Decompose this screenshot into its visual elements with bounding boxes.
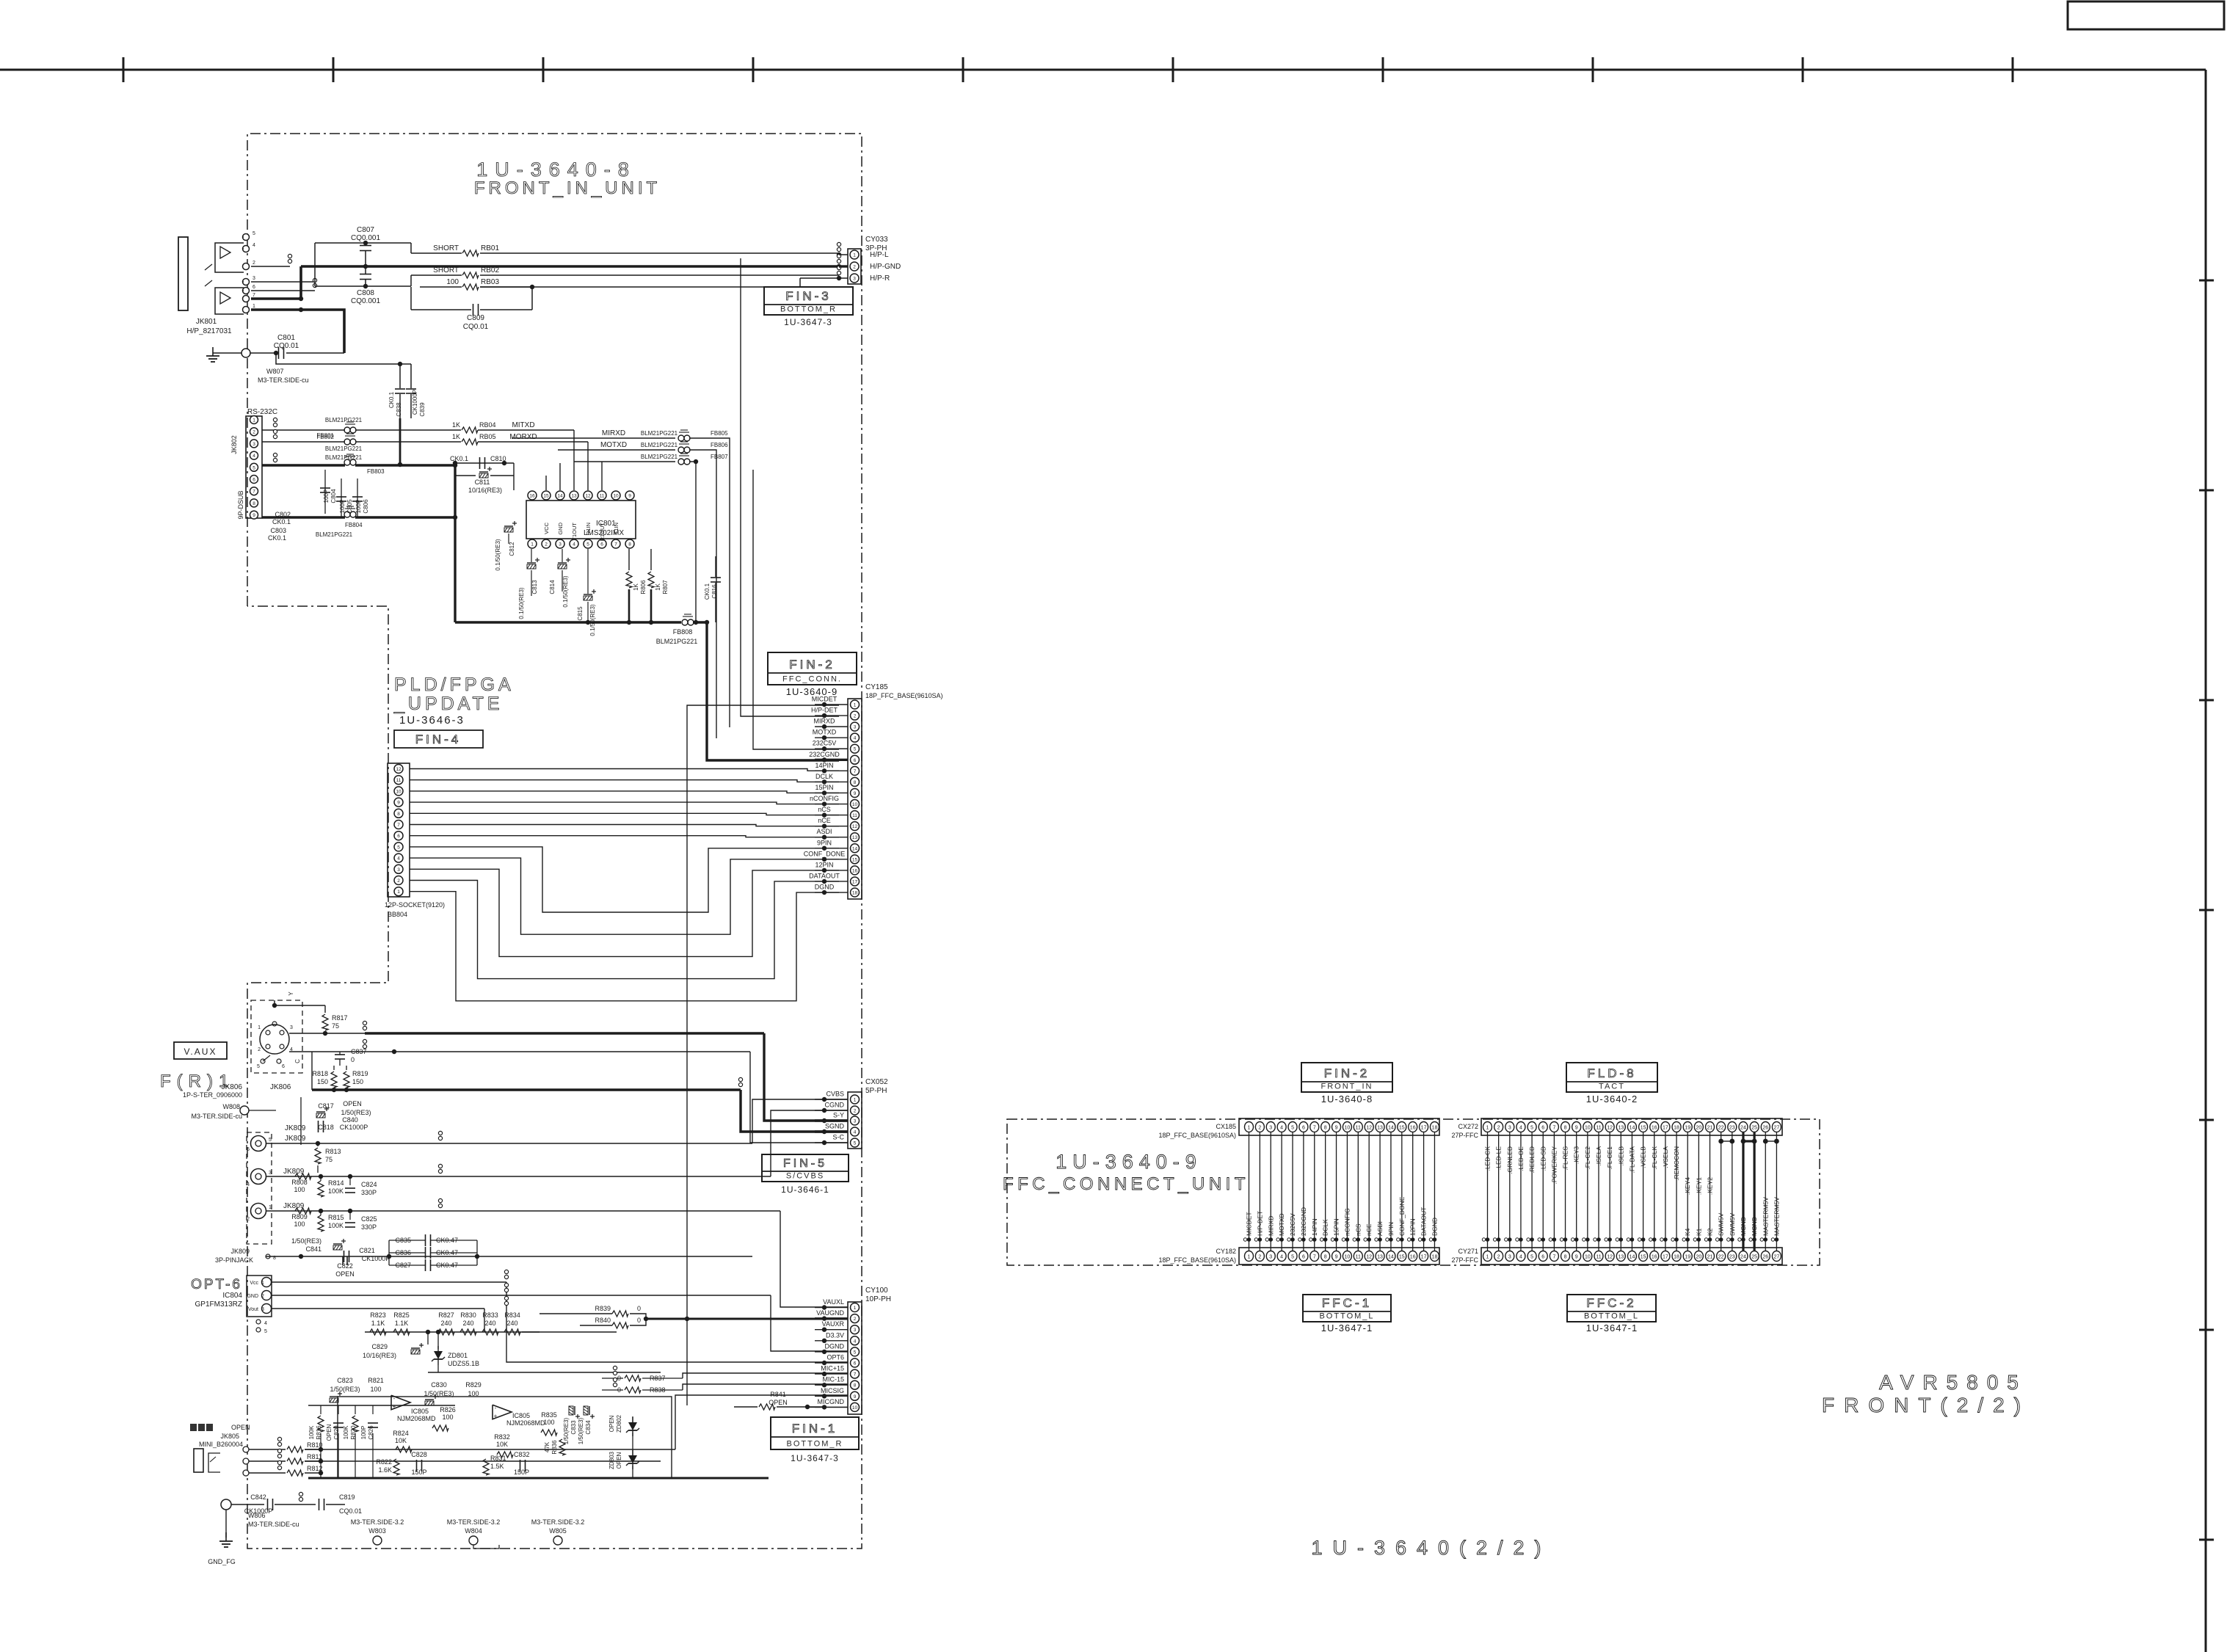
- svg-text:10: 10: [1345, 1255, 1351, 1260]
- svg-text:24: 24: [1740, 1126, 1746, 1131]
- svg-text:C806: C806: [363, 499, 369, 514]
- svg-text:W807: W807: [266, 368, 284, 375]
- svg-text:5: 5: [854, 1350, 857, 1355]
- svg-text:ASDI: ASDI: [1376, 1221, 1384, 1236]
- svg-text:.ISELA: .ISELA: [1595, 1146, 1602, 1166]
- svg-text:JK801: JK801: [196, 318, 217, 326]
- svg-text:12PIN: 12PIN: [1409, 1218, 1417, 1236]
- svg-text:CX052: CX052: [865, 1078, 888, 1086]
- svg-text:R814: R814: [328, 1179, 344, 1187]
- svg-text:Vout: Vout: [248, 1307, 258, 1312]
- svg-text:24: 24: [1740, 1255, 1746, 1260]
- svg-text:13: 13: [1618, 1255, 1624, 1260]
- svg-text:47K: 47K: [544, 1441, 551, 1452]
- svg-text:Vcc: Vcc: [250, 1281, 258, 1286]
- svg-text:3: 3: [853, 277, 856, 282]
- svg-text:27P-FFC: 27P-FFC: [1451, 1256, 1478, 1264]
- svg-text:BLM21PG221: BLM21PG221: [325, 454, 363, 461]
- svg-text:8: 8: [253, 501, 255, 506]
- svg-text:9: 9: [1575, 1255, 1578, 1260]
- svg-text:9: 9: [1335, 1126, 1338, 1131]
- svg-text:27: 27: [1774, 1126, 1780, 1131]
- svg-text:SWM5V: SWM5V: [1729, 1213, 1736, 1237]
- svg-text:1U-3640-2: 1U-3640-2: [1586, 1094, 1638, 1105]
- svg-text:3: 3: [854, 1328, 857, 1333]
- svg-text:2: 2: [1258, 1126, 1261, 1131]
- svg-text:15: 15: [1641, 1126, 1646, 1131]
- svg-text:11: 11: [1596, 1126, 1601, 1131]
- svg-text:DATAOUT: DATAOUT: [1420, 1207, 1428, 1236]
- svg-text:0.1/50(RE3): 0.1/50(RE3): [495, 539, 501, 570]
- svg-text:10K: 10K: [496, 1441, 508, 1448]
- svg-text:7: 7: [1552, 1126, 1555, 1131]
- svg-text:4: 4: [264, 1321, 267, 1326]
- svg-text:OPEN: OPEN: [231, 1424, 250, 1431]
- svg-text:3: 3: [559, 542, 562, 547]
- svg-text:100K: 100K: [328, 1222, 344, 1229]
- svg-text:13: 13: [852, 835, 858, 840]
- svg-text:CK0.1: CK0.1: [450, 455, 468, 462]
- svg-text:CX272: CX272: [1458, 1123, 1478, 1130]
- svg-text:CQ0.001: CQ0.001: [351, 297, 380, 305]
- svg-text:4: 4: [253, 243, 255, 248]
- svg-text:CK0.1: CK0.1: [388, 391, 395, 408]
- svg-text:25: 25: [1751, 1255, 1757, 1260]
- svg-text:100: 100: [294, 1220, 305, 1228]
- svg-text:1U-3646-3: 1U-3646-3: [399, 714, 465, 727]
- svg-text:C825: C825: [361, 1215, 377, 1223]
- svg-text:BLM21PG221: BLM21PG221: [325, 445, 363, 452]
- svg-text:SWM5V: SWM5V: [1718, 1213, 1725, 1237]
- svg-text:100: 100: [294, 1186, 305, 1193]
- svg-text:H/P-DET: H/P-DET: [811, 707, 838, 714]
- svg-text:25: 25: [1751, 1126, 1757, 1131]
- svg-text:GND: GND: [557, 522, 564, 534]
- svg-text:MIC-15: MIC-15: [822, 1376, 844, 1383]
- svg-text:DGND: DGND: [815, 884, 835, 891]
- svg-text:VAUXL: VAUXL: [823, 1298, 844, 1306]
- svg-text:MASTERM5V: MASTERM5V: [1762, 1197, 1769, 1236]
- svg-text:16: 16: [1410, 1255, 1416, 1260]
- svg-text:4: 4: [854, 736, 857, 741]
- svg-text:CQ0.001: CQ0.001: [351, 234, 380, 242]
- svg-text:18: 18: [852, 891, 858, 896]
- svg-text:3: 3: [290, 1025, 293, 1030]
- svg-text:JK809: JK809: [230, 1248, 250, 1255]
- svg-text:3: 3: [261, 1307, 264, 1312]
- svg-text:3: 3: [1508, 1255, 1511, 1260]
- svg-text:100: 100: [442, 1413, 453, 1421]
- svg-text:7: 7: [253, 293, 255, 298]
- svg-text:8: 8: [854, 780, 857, 785]
- svg-text:6: 6: [397, 834, 400, 839]
- svg-text:5: 5: [269, 1138, 272, 1143]
- svg-text:R834: R834: [504, 1311, 520, 1319]
- svg-text:RB04: RB04: [479, 421, 496, 429]
- svg-text:MIRXD: MIRXD: [602, 429, 625, 437]
- svg-text:100K: 100K: [343, 1425, 349, 1439]
- svg-text:18P_FFC_BASE(9610SA): 18P_FFC_BASE(9610SA): [865, 692, 943, 699]
- svg-text:MASTERM5V: MASTERM5V: [1773, 1197, 1780, 1236]
- svg-text:100: 100: [370, 1386, 381, 1393]
- svg-text:1: 1: [1486, 1255, 1489, 1260]
- svg-text:2: 2: [854, 1109, 857, 1114]
- svg-text:5: 5: [854, 1141, 857, 1146]
- svg-text:6: 6: [282, 1064, 285, 1069]
- svg-text:1: 1: [253, 418, 255, 423]
- svg-text:1U-3646-1: 1U-3646-1: [781, 1185, 829, 1195]
- svg-text:1: 1: [1486, 1126, 1489, 1131]
- svg-text:17: 17: [852, 879, 858, 884]
- svg-text:15PIN: 15PIN: [815, 784, 833, 791]
- svg-text:15: 15: [543, 494, 549, 499]
- svg-text:MGND: MGND: [1740, 1217, 1747, 1236]
- svg-text:4: 4: [1280, 1126, 1283, 1131]
- svg-text:13: 13: [1377, 1255, 1383, 1260]
- svg-text:6: 6: [600, 542, 603, 547]
- svg-text:C801: C801: [277, 334, 295, 342]
- svg-text:DATAOUT: DATAOUT: [809, 872, 840, 879]
- svg-text:1/50(RE3): 1/50(RE3): [330, 1386, 360, 1393]
- svg-text:18: 18: [1432, 1126, 1438, 1131]
- svg-text:FIN-2: FIN-2: [789, 658, 835, 672]
- svg-text:R823: R823: [370, 1311, 386, 1319]
- svg-text:DGND: DGND: [825, 1342, 845, 1350]
- svg-text:22: 22: [1718, 1255, 1724, 1260]
- svg-text:C804: C804: [330, 489, 337, 503]
- svg-text:CQ0.01: CQ0.01: [463, 323, 489, 331]
- svg-text:3: 3: [253, 276, 255, 281]
- svg-text:C815: C815: [577, 606, 584, 621]
- svg-text:nCE: nCE: [1365, 1223, 1373, 1236]
- svg-text:2: 2: [854, 1317, 857, 1322]
- svg-text:nCS: nCS: [1354, 1223, 1362, 1236]
- svg-text:240: 240: [484, 1320, 495, 1327]
- svg-text:CK0.1: CK0.1: [704, 583, 711, 600]
- svg-text:C808: C808: [357, 289, 374, 297]
- svg-text:0: 0: [637, 1317, 641, 1324]
- svg-text:16: 16: [1652, 1126, 1657, 1131]
- svg-text:C833: C833: [570, 1420, 577, 1435]
- svg-text:12P-SOCKET(9120): 12P-SOCKET(9120): [385, 901, 445, 909]
- svg-text:Y: Y: [288, 991, 294, 996]
- svg-text:.FL-CLK: .FL-CLK: [1651, 1146, 1658, 1170]
- svg-text:MOTXD: MOTXD: [813, 729, 837, 736]
- svg-text:BLM21PG221: BLM21PG221: [641, 430, 678, 437]
- svg-text:ZD803: ZD803: [608, 1451, 615, 1469]
- svg-text:11: 11: [1596, 1255, 1601, 1260]
- svg-text:R824: R824: [393, 1430, 409, 1437]
- svg-text:MICSIG: MICSIG: [821, 1387, 844, 1394]
- svg-text:1K: 1K: [452, 421, 460, 429]
- svg-text:330P: 330P: [361, 1189, 377, 1196]
- svg-text:1K: 1K: [655, 583, 661, 590]
- svg-text:150P: 150P: [411, 1469, 426, 1476]
- svg-text:232C5V: 232C5V: [1289, 1213, 1296, 1236]
- svg-text:3: 3: [854, 725, 857, 730]
- svg-text:21: 21: [1707, 1126, 1713, 1131]
- svg-text:1U-3640-8: 1U-3640-8: [1321, 1094, 1373, 1105]
- svg-text:UDZS5.1B: UDZS5.1B: [448, 1360, 479, 1367]
- svg-text:R813: R813: [325, 1148, 341, 1155]
- svg-text:7: 7: [397, 823, 400, 828]
- svg-text:0.1/50(RE3): 0.1/50(RE3): [589, 604, 596, 636]
- svg-text:8: 8: [854, 1383, 857, 1389]
- svg-text:BOTTOM_L: BOTTOM_L: [1584, 1312, 1639, 1321]
- svg-text:2: 2: [853, 265, 856, 270]
- svg-text:NJM2068MD: NJM2068MD: [506, 1419, 545, 1427]
- svg-text:17: 17: [1421, 1255, 1427, 1260]
- svg-text:MICDET: MICDET: [1246, 1212, 1253, 1236]
- svg-text:MOTXD: MOTXD: [600, 441, 627, 449]
- svg-text:12: 12: [1607, 1255, 1613, 1260]
- svg-text:ASDI: ASDI: [816, 828, 832, 835]
- svg-text:M3-TER.SIDE-cu: M3-TER.SIDE-cu: [258, 376, 309, 384]
- svg-text:16: 16: [1410, 1126, 1416, 1131]
- svg-text:CK1000P: CK1000P: [340, 1124, 368, 1131]
- svg-text:5: 5: [1291, 1126, 1294, 1131]
- svg-text:1: 1: [1248, 1255, 1251, 1260]
- svg-text:1K: 1K: [633, 583, 639, 590]
- svg-text:C838: C838: [396, 402, 402, 417]
- svg-text:13: 13: [1377, 1126, 1383, 1131]
- svg-text:CONF_DONE: CONF_DONE: [1398, 1196, 1406, 1236]
- svg-text:CQ0.01: CQ0.01: [274, 342, 299, 350]
- svg-text:M3-TER.SIDE-3.2: M3-TER.SIDE-3.2: [447, 1518, 501, 1526]
- svg-text:2: 2: [253, 430, 255, 435]
- svg-text:14: 14: [1388, 1126, 1394, 1131]
- svg-text:15: 15: [1399, 1255, 1405, 1260]
- svg-text:2: 2: [1497, 1255, 1500, 1260]
- svg-text:FB806: FB806: [711, 442, 728, 448]
- svg-text:9: 9: [854, 791, 857, 796]
- svg-text:C832: C832: [514, 1451, 530, 1458]
- svg-text:FB805: FB805: [711, 430, 728, 437]
- svg-text:CK0.1: CK0.1: [268, 534, 286, 542]
- svg-text:1U-3640(2/2): 1U-3640(2/2): [1311, 1537, 1551, 1559]
- svg-text:.GRNLED: .GRNLED: [1506, 1146, 1514, 1174]
- svg-text:.KEY4: .KEY4: [1684, 1177, 1691, 1195]
- svg-text:1: 1: [854, 703, 857, 708]
- svg-text:13: 13: [1618, 1126, 1624, 1131]
- svg-text:2: 2: [253, 261, 255, 266]
- svg-text:MICGND: MICGND: [818, 1398, 845, 1405]
- svg-text:0: 0: [637, 1305, 641, 1312]
- svg-text:DGND: DGND: [1431, 1218, 1438, 1236]
- svg-text:R832: R832: [494, 1433, 510, 1441]
- svg-text:BLM21PG221: BLM21PG221: [641, 442, 678, 448]
- svg-text:6: 6: [1302, 1255, 1305, 1260]
- svg-text:8: 8: [1564, 1126, 1567, 1131]
- svg-text:ZD802: ZD802: [616, 1414, 622, 1433]
- svg-text:H/P-R: H/P-R: [870, 274, 890, 283]
- svg-text:3: 3: [269, 1171, 272, 1176]
- svg-text:6: 6: [253, 478, 255, 483]
- svg-text:R815: R815: [328, 1214, 344, 1221]
- svg-text:27: 27: [1774, 1255, 1780, 1260]
- svg-text:9: 9: [1575, 1126, 1578, 1131]
- svg-text:1.1K: 1.1K: [395, 1320, 409, 1327]
- svg-text:15: 15: [1641, 1255, 1646, 1260]
- svg-text:C840: C840: [342, 1116, 358, 1124]
- svg-text:7: 7: [854, 1372, 857, 1378]
- svg-text:12: 12: [1366, 1126, 1372, 1131]
- svg-text:M3-TER.SIDE-3.2: M3-TER.SIDE-3.2: [351, 1518, 404, 1526]
- svg-text:.REMOCON: .REMOCON: [1673, 1146, 1680, 1181]
- svg-text:17: 17: [1421, 1126, 1427, 1131]
- svg-text:FIN-1: FIN-1: [792, 1422, 838, 1436]
- svg-text:232C5V: 232C5V: [813, 740, 837, 747]
- svg-text:.LED-LE: .LED-LE: [1495, 1146, 1503, 1170]
- svg-text:.FL-RES: .FL-RES: [1562, 1146, 1569, 1171]
- svg-text:15: 15: [1399, 1126, 1405, 1131]
- svg-text:.KEY3: .KEY3: [1573, 1146, 1580, 1164]
- svg-text:T1OUT: T1OUT: [571, 523, 578, 541]
- svg-text:9: 9: [1335, 1255, 1338, 1260]
- svg-text:H/P_8217031: H/P_8217031: [186, 327, 232, 335]
- svg-text:FIN-4: FIN-4: [415, 732, 462, 746]
- svg-text:W805: W805: [549, 1527, 567, 1535]
- svg-text:10P-PH: 10P-PH: [865, 1295, 891, 1303]
- svg-text:RB03: RB03: [481, 278, 499, 286]
- svg-text:BLM21PG221: BLM21PG221: [325, 417, 363, 423]
- svg-text:BLM21PG221: BLM21PG221: [316, 531, 353, 538]
- svg-text:8: 8: [1564, 1255, 1567, 1260]
- svg-text:OPEN: OPEN: [343, 1100, 362, 1107]
- svg-text:MIRXD: MIRXD: [814, 718, 836, 725]
- svg-text:1U-3647-1: 1U-3647-1: [1321, 1322, 1373, 1333]
- svg-text:+: +: [494, 1413, 498, 1419]
- svg-text:JK806: JK806: [270, 1083, 291, 1091]
- svg-text:100K: 100K: [308, 1425, 315, 1439]
- svg-text:C809: C809: [467, 314, 484, 322]
- svg-text:IC804: IC804: [222, 1292, 242, 1300]
- svg-text:H/P-GND: H/P-GND: [870, 263, 901, 271]
- svg-text:2: 2: [545, 542, 548, 547]
- svg-text:12: 12: [1607, 1126, 1613, 1131]
- svg-text:SHORT: SHORT: [433, 266, 459, 274]
- svg-text:23: 23: [1729, 1255, 1735, 1260]
- svg-text:FB807: FB807: [711, 454, 728, 460]
- svg-text:14PIN: 14PIN: [815, 762, 833, 769]
- svg-text:6: 6: [854, 758, 857, 763]
- svg-text:14: 14: [1630, 1255, 1635, 1260]
- svg-text:3P-PH: 3P-PH: [865, 244, 887, 252]
- svg-text:16: 16: [529, 494, 535, 499]
- svg-text:6: 6: [1302, 1126, 1305, 1131]
- svg-text:.FL-DATA: .FL-DATA: [1628, 1146, 1635, 1173]
- svg-text:R819: R819: [352, 1070, 368, 1077]
- svg-text:C839: C839: [419, 402, 426, 417]
- svg-text:MORXD: MORXD: [509, 433, 537, 441]
- svg-text:4: 4: [247, 1182, 250, 1187]
- svg-text:8: 8: [397, 812, 400, 817]
- svg-text:C830: C830: [431, 1381, 447, 1389]
- svg-text:.LED-CK: .LED-CK: [1484, 1146, 1492, 1171]
- svg-text:C811: C811: [475, 479, 490, 486]
- svg-text:6: 6: [1541, 1126, 1544, 1131]
- svg-text:1: 1: [258, 1025, 261, 1030]
- svg-text:3: 3: [1508, 1126, 1511, 1131]
- svg-text:5: 5: [253, 465, 255, 470]
- svg-text:8: 8: [628, 542, 631, 547]
- svg-text:5: 5: [397, 845, 400, 850]
- svg-text:3: 3: [1269, 1255, 1272, 1260]
- svg-text:1/50(RE3): 1/50(RE3): [578, 1417, 584, 1444]
- svg-text:CY271: CY271: [1458, 1248, 1478, 1255]
- svg-text:9: 9: [397, 801, 400, 806]
- svg-text:18: 18: [1674, 1255, 1679, 1260]
- svg-text:MICDET: MICDET: [812, 696, 838, 703]
- svg-text:1U-3647-1: 1U-3647-1: [1586, 1322, 1638, 1333]
- svg-text:C822: C822: [337, 1262, 353, 1270]
- svg-text:11: 11: [600, 494, 605, 499]
- svg-text:SHORT: SHORT: [433, 244, 459, 252]
- svg-text:RB05: RB05: [479, 433, 496, 440]
- svg-text:TACT: TACT: [1599, 1082, 1625, 1091]
- svg-text:.FL-CE2: .FL-CE2: [1584, 1146, 1591, 1170]
- svg-text:FRONT_IN: FRONT_IN: [1321, 1082, 1373, 1091]
- svg-text:JK809: JK809: [283, 1168, 305, 1176]
- svg-text:7: 7: [1313, 1126, 1316, 1131]
- svg-text:6: 6: [854, 1361, 857, 1367]
- svg-text:4: 4: [1519, 1255, 1522, 1260]
- svg-text:GP1FM313RZ: GP1FM313RZ: [195, 1300, 242, 1309]
- svg-text:.LED-SD: .LED-SD: [1539, 1146, 1547, 1171]
- svg-text:100: 100: [446, 278, 459, 286]
- svg-text:4: 4: [854, 1339, 857, 1344]
- svg-text:5: 5: [257, 1064, 260, 1069]
- svg-text:12: 12: [852, 824, 858, 829]
- svg-text:1: 1: [261, 1281, 264, 1286]
- svg-text:C841: C841: [305, 1245, 321, 1253]
- svg-text:R833: R833: [482, 1311, 498, 1319]
- svg-text:3P-PINJACK: 3P-PINJACK: [215, 1256, 253, 1264]
- svg-text:100: 100: [543, 1419, 554, 1426]
- svg-text:2: 2: [1497, 1126, 1500, 1131]
- svg-text:11: 11: [1356, 1255, 1361, 1260]
- svg-text:.KEY2: .KEY2: [1707, 1177, 1714, 1195]
- svg-text:3: 3: [397, 867, 400, 873]
- svg-text:nCS: nCS: [818, 806, 831, 813]
- svg-text:.FL-CE1: .FL-CE1: [1606, 1146, 1613, 1170]
- svg-text:MINI_B260004: MINI_B260004: [199, 1441, 243, 1448]
- svg-text:7: 7: [253, 490, 255, 495]
- svg-text:W806: W806: [248, 1512, 266, 1519]
- svg-text:14: 14: [1388, 1255, 1394, 1260]
- svg-text:OPEN: OPEN: [335, 1270, 355, 1278]
- svg-text:C828: C828: [411, 1451, 427, 1458]
- svg-text:27P-FFC: 27P-FFC: [1451, 1132, 1478, 1139]
- svg-text:14: 14: [557, 494, 563, 499]
- svg-text:2: 2: [854, 714, 857, 719]
- svg-text:C: C: [294, 1059, 301, 1063]
- svg-text:1: 1: [269, 1205, 272, 1210]
- svg-text:R826: R826: [440, 1406, 456, 1413]
- svg-text:VCC: VCC: [543, 522, 550, 534]
- svg-text:14: 14: [1630, 1126, 1635, 1131]
- svg-text:11: 11: [852, 813, 857, 818]
- svg-text:C842: C842: [250, 1493, 266, 1501]
- svg-text:14PIN: 14PIN: [1311, 1218, 1318, 1236]
- svg-text:S/CVBS: S/CVBS: [786, 1172, 824, 1181]
- svg-text:10: 10: [1345, 1126, 1351, 1131]
- svg-text:C821: C821: [359, 1247, 375, 1254]
- svg-text:D3.3V: D3.3V: [826, 1331, 844, 1339]
- svg-text:R809: R809: [291, 1213, 308, 1220]
- svg-text:V.AUX: V.AUX: [184, 1047, 217, 1057]
- svg-text:BB804: BB804: [388, 911, 407, 918]
